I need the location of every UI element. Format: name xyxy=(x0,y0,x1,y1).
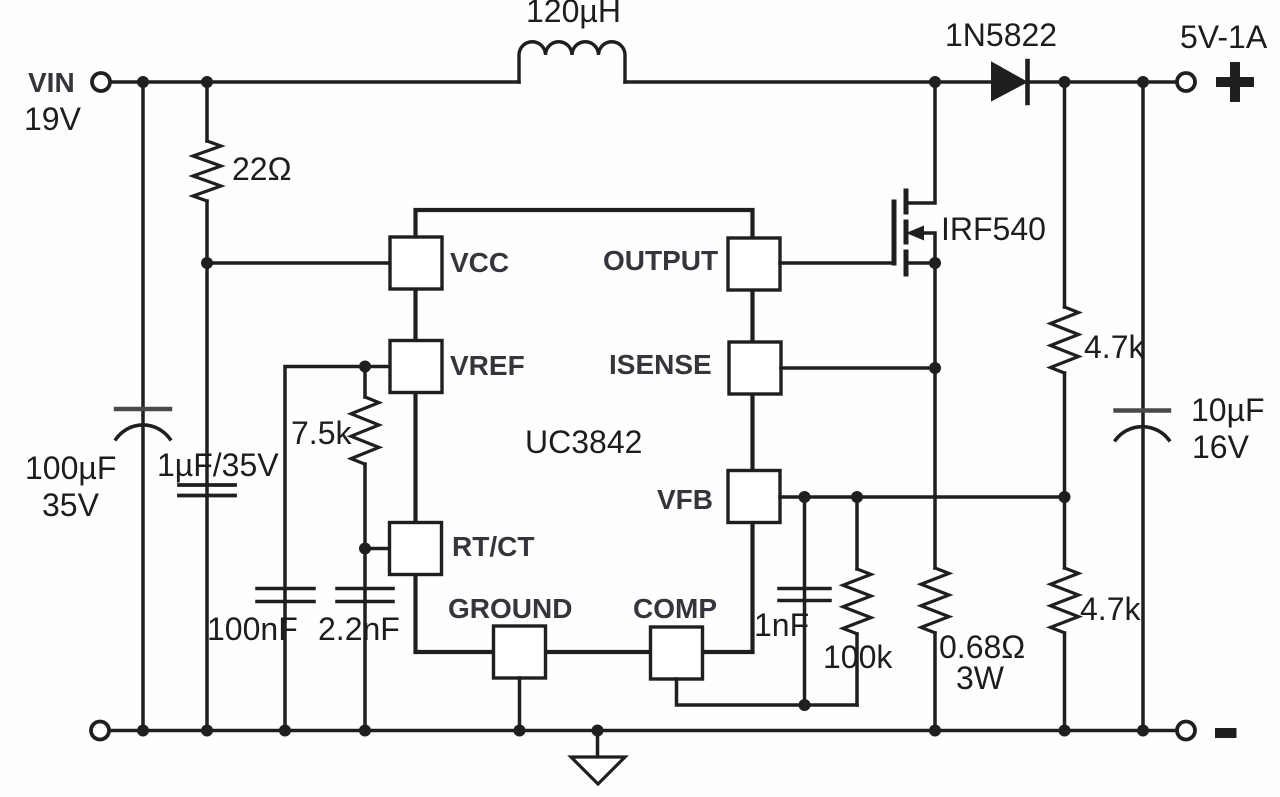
svg-text:1µF/35V: 1µF/35V xyxy=(157,447,279,483)
terminal + output xyxy=(1177,73,1195,91)
wire OUTPUT gate xyxy=(780,261,894,265)
node dot top rail 4.7k xyxy=(1059,76,1071,88)
pin box VCC xyxy=(390,237,442,289)
svg-text:120µH: 120µH xyxy=(526,0,621,29)
capacitor C1 100uF/35V polarized xyxy=(116,407,170,411)
transistor Q1 IRF540 xyxy=(894,82,935,368)
svg-text:VREF: VREF xyxy=(450,350,525,381)
ground symbol stem xyxy=(596,731,600,758)
svg-text:IRF540: IRF540 xyxy=(941,211,1046,247)
svg-text:19V: 19V xyxy=(24,101,82,137)
node dot rail GROUND xyxy=(514,725,526,737)
svg-text:VCC: VCC xyxy=(450,247,509,278)
svg-text:35V: 35V xyxy=(42,487,100,523)
svg-text:5V-1A: 5V-1A xyxy=(1180,19,1268,55)
capacitor C4 2.2nF xyxy=(337,589,393,602)
svg-text:ISENSE: ISENSE xyxy=(609,349,712,380)
node dot rail 4.7k xyxy=(1059,725,1071,737)
svg-text:100nF: 100nF xyxy=(207,611,298,647)
node dot rail 2.2nF xyxy=(359,725,371,737)
svg-text:VIN: VIN xyxy=(28,67,75,98)
svg-text:UC3842: UC3842 xyxy=(525,424,642,460)
node dot top rail 100uF xyxy=(137,76,149,88)
svg-text:16V: 16V xyxy=(1192,429,1250,465)
node dot VFB 1nF xyxy=(799,491,811,503)
wire 7.5k / 2.2nF branch xyxy=(363,367,367,731)
inductor L1 120uH xyxy=(519,42,625,82)
capacitor C2 1uF/35V xyxy=(179,485,235,496)
node dot RT/CT xyxy=(359,543,371,555)
wire VCC to 22ohm node xyxy=(207,261,390,265)
node dot ISENSE xyxy=(929,362,941,374)
plus symbol xyxy=(1216,77,1254,87)
wire top rail left (VIN to inductor) xyxy=(110,80,519,84)
terminal VIN xyxy=(92,73,110,91)
node dot top rail drain xyxy=(929,76,941,88)
resistor R5 4.7k xyxy=(1051,307,1079,373)
svg-text:100k: 100k xyxy=(823,639,893,675)
node dot rail 0.68ohm xyxy=(929,725,941,737)
terminal bottom right (minus) xyxy=(1177,722,1195,740)
svg-text:3W: 3W xyxy=(956,660,1005,696)
node dot VREF xyxy=(359,361,371,373)
node dot rail gnd symbol xyxy=(592,725,604,737)
node dot MOSFET source xyxy=(929,257,941,269)
svg-text:VFB: VFB xyxy=(657,484,713,515)
pin box VREF xyxy=(390,341,442,393)
wire 0.68ohm sense branch xyxy=(933,368,937,731)
wire 100uF branch xyxy=(141,82,145,731)
svg-text:7.5k: 7.5k xyxy=(291,415,352,451)
wire 22ohm / 1uF branch xyxy=(205,82,209,731)
IC U1 UC3842 body xyxy=(416,210,753,652)
wire GROUND pin to rail xyxy=(518,678,522,731)
node dot top rail 22ohm xyxy=(201,76,213,88)
resistor R3 100k xyxy=(843,569,871,634)
resistor R4 0.68ohm 3W xyxy=(921,568,949,633)
svg-text:RT/CT: RT/CT xyxy=(452,531,534,562)
pin box OUTPUT xyxy=(728,238,780,290)
svg-text:COMP: COMP xyxy=(633,593,717,624)
pin box GROUND xyxy=(494,626,546,678)
pin box COMP xyxy=(651,627,703,679)
capacitor C5 1nF xyxy=(779,589,830,601)
wire ISENSE xyxy=(781,366,935,370)
wire 1nF branch xyxy=(803,497,807,705)
svg-text:4.7k: 4.7k xyxy=(1080,591,1141,627)
wire 100k branch xyxy=(855,497,859,705)
svg-text:10µF: 10µF xyxy=(1191,392,1265,428)
svg-text:4.7k: 4.7k xyxy=(1084,329,1145,365)
wire VFB feedback xyxy=(780,495,1065,499)
node dot rail 1uF xyxy=(201,725,213,737)
resistor R6 4.7k xyxy=(1051,568,1079,633)
pin box ISENSE xyxy=(729,342,781,394)
pin box VFB xyxy=(728,471,780,523)
node dot rail 10uF xyxy=(1137,725,1149,737)
minus symbol xyxy=(1215,728,1237,738)
svg-text:GROUND: GROUND xyxy=(448,593,572,624)
svg-text:1N5822: 1N5822 xyxy=(945,17,1057,53)
ground symbol xyxy=(571,757,625,784)
node dot VFB divider xyxy=(1059,491,1071,503)
wire COMP compensation xyxy=(677,679,858,705)
wire 4.7k upper branch xyxy=(1063,82,1067,497)
wire bottom rail xyxy=(109,729,1177,733)
wire 10uF branch xyxy=(1141,82,1145,731)
diode D1 1N5822 xyxy=(992,63,1026,100)
svg-text:OUTPUT: OUTPUT xyxy=(603,245,718,276)
node dot rail 100uF xyxy=(137,725,149,737)
node dot VFB 100k xyxy=(851,491,863,503)
terminal bottom left xyxy=(91,722,109,740)
node dot top rail 10uF xyxy=(1137,76,1149,88)
svg-text:100µF: 100µF xyxy=(25,450,116,486)
node dot VCC xyxy=(201,257,213,269)
wire 4.7k lower branch xyxy=(1063,497,1067,731)
resistor R2 7.5k xyxy=(351,397,379,464)
pin box RT/CT xyxy=(390,523,442,575)
wire VREF branch xyxy=(285,367,390,731)
svg-text:1nF: 1nF xyxy=(754,607,809,643)
node dot COMP 1nF xyxy=(799,699,811,711)
capacitor C3 100nF xyxy=(257,589,314,602)
wire top rail right (inductor to diode, diode to + terminal) xyxy=(625,80,1177,84)
resistor R1 22ohm xyxy=(193,141,221,201)
wire RT/CT to divider xyxy=(365,547,390,551)
capacitor C6 10uF/16V polarized xyxy=(1116,408,1170,412)
node dot rail 100nF xyxy=(279,725,291,737)
svg-text:2.2nF: 2.2nF xyxy=(318,611,400,647)
svg-text:22Ω: 22Ω xyxy=(232,151,292,187)
